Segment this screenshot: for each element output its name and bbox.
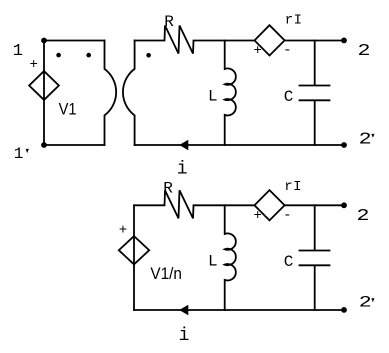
svg-text:2: 2	[359, 294, 372, 312]
svg-text:1: 1	[13, 42, 23, 61]
svg-text:i: i	[177, 159, 188, 179]
svg-text:R: R	[164, 13, 174, 31]
svg-text:2: 2	[359, 131, 372, 150]
svg-text:+: +	[253, 43, 261, 59]
svg-text:2: 2	[357, 207, 370, 226]
svg-text:1: 1	[14, 145, 24, 163]
svg-text:rI: rI	[285, 13, 303, 29]
svg-text:-: -	[283, 207, 291, 223]
svg-text:+: +	[119, 223, 127, 239]
svg-text:C: C	[284, 88, 294, 106]
svg-text:+: +	[253, 208, 261, 224]
svg-text:i: i	[179, 326, 190, 346]
svg-text:R: R	[163, 179, 173, 197]
svg-text:2: 2	[358, 42, 371, 61]
svg-text:+: +	[29, 57, 37, 73]
svg-text:-: -	[283, 42, 291, 58]
svg-text:V1/n: V1/n	[150, 264, 182, 283]
svg-text:C: C	[284, 253, 294, 271]
svg-text:rI: rI	[284, 179, 302, 195]
svg-text:V1: V1	[59, 100, 77, 119]
svg-text:L: L	[208, 252, 218, 270]
svg-text:L: L	[208, 87, 218, 105]
